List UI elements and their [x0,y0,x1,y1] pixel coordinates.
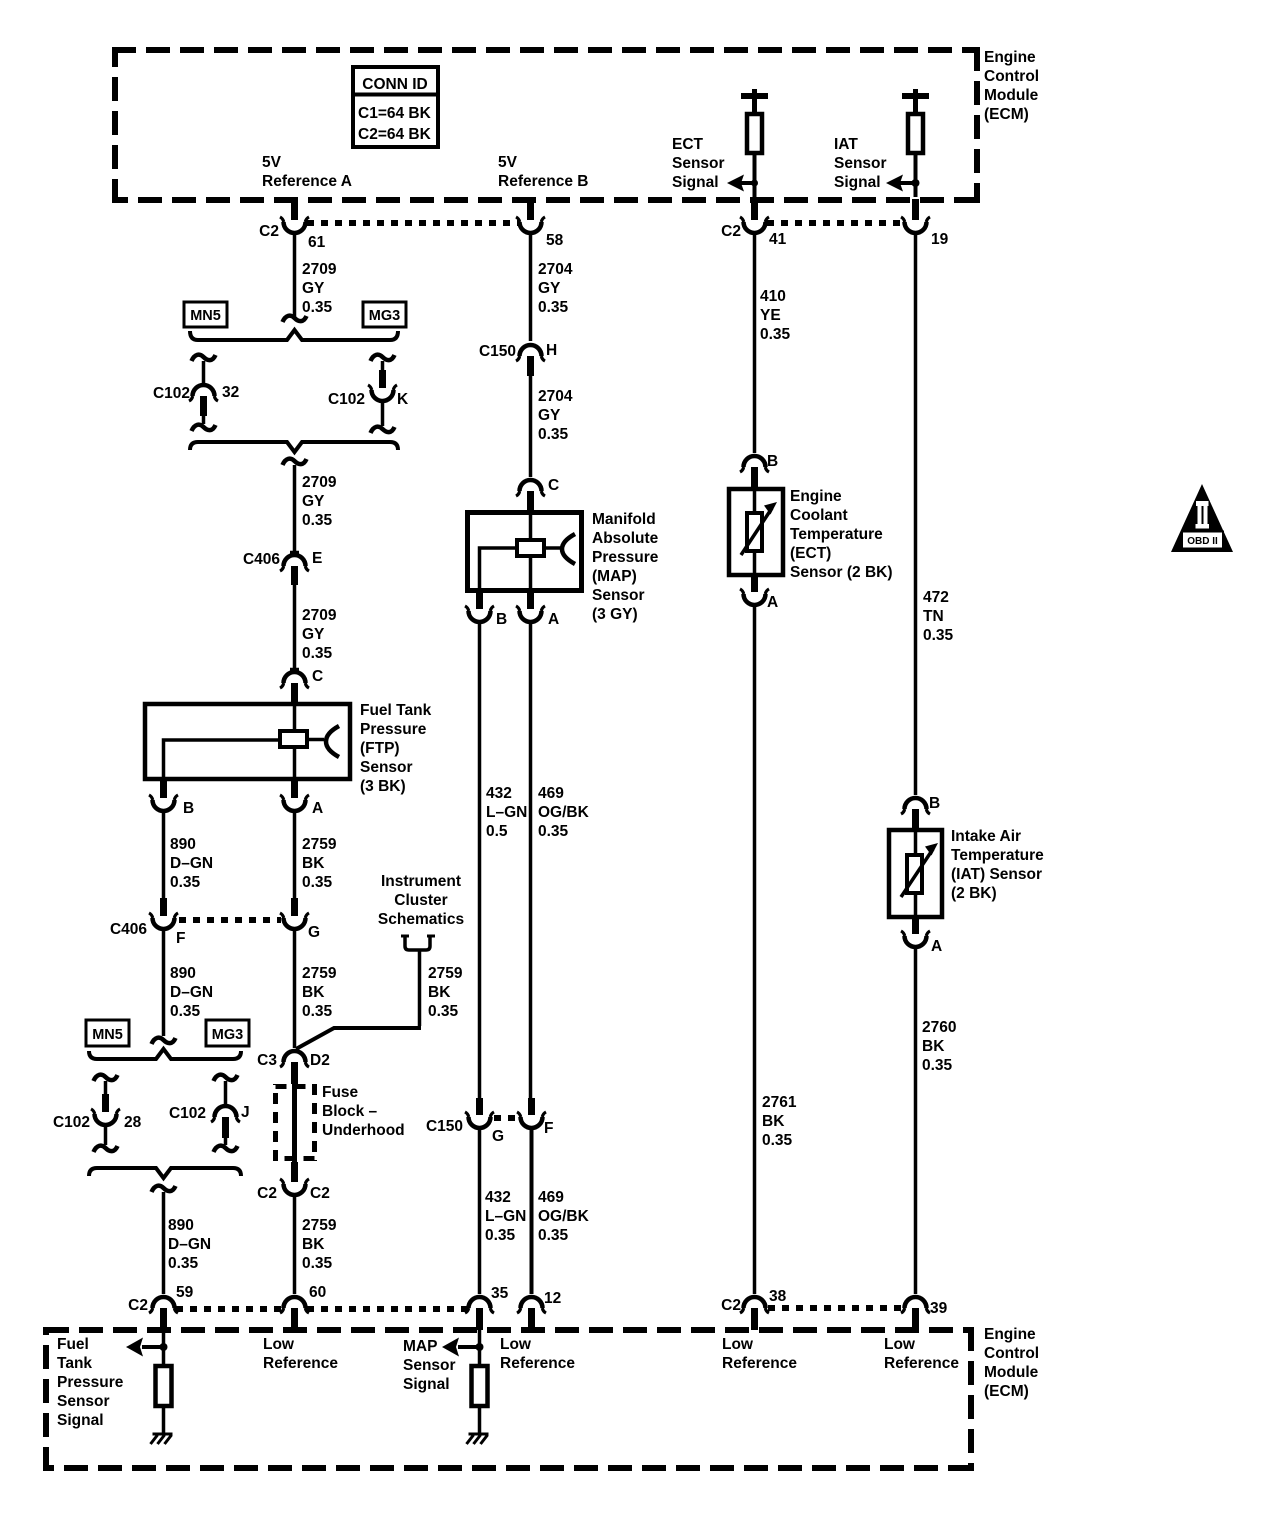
svg-text:MAP: MAP [403,1338,437,1355]
svg-text:D–GN: D–GN [170,984,213,1001]
svg-text:0.35: 0.35 [923,627,954,644]
connector FTP pin C [280,668,323,703]
svg-text:2709: 2709 [302,607,337,624]
wire dotted link 38-39 [768,1305,903,1311]
branch MN5 lower wire [94,1075,118,1094]
svg-text:Engine: Engine [790,488,842,505]
svg-text:ECT: ECT [672,136,704,153]
svg-text:Sensor: Sensor [672,155,725,172]
connector MAP pin A [516,592,559,628]
svg-text:Fuel: Fuel [57,1336,89,1353]
svg-text:61: 61 [308,234,326,251]
node Fuel Tank Pressure Sensor Signal [57,1336,124,1429]
wire 2704 GY to MAP C [531,376,573,477]
Intake Air Temperature (IAT) Sensor box [889,829,942,919]
ECM bottom box [45,1327,972,1471]
svg-text:Fuel Tank: Fuel Tank [360,702,432,719]
svg-text:Signal: Signal [57,1412,104,1429]
svg-text:19: 19 [931,231,949,248]
connector C406 pin F [110,898,186,947]
connector pin 60 [280,1284,326,1332]
resistor ECT pull-up (inside ECM) [741,89,768,197]
connector ECT pin A [740,577,778,611]
svg-text:C2: C2 [259,223,279,240]
connector pin 39 [901,1297,948,1330]
svg-text:60: 60 [309,1284,326,1301]
svg-text:0.35: 0.35 [538,1227,569,1244]
wire 2759 BK from FTP A [295,811,337,898]
brace split top [190,330,398,340]
wire 2704 GY from pin 58 [531,233,573,341]
svg-text:432: 432 [485,1189,511,1206]
wire dashed link G-F [494,1115,518,1121]
svg-text:F: F [544,1120,553,1137]
svg-text:MN5: MN5 [92,1027,123,1043]
node 5V Reference B [498,154,588,190]
svg-text:890: 890 [168,1217,194,1234]
svg-text:BK: BK [762,1113,785,1130]
OBD II marker [1171,484,1233,552]
connector C2 pin 41 [721,199,786,248]
svg-text:Schematics: Schematics [378,911,464,928]
svg-text:Fuse: Fuse [322,1084,359,1101]
svg-text:5V: 5V [498,154,518,171]
brace split top lower [89,1049,241,1059]
connector C150 pin G [426,1098,504,1145]
svg-text:0.35: 0.35 [760,326,791,343]
svg-text:2759: 2759 [302,965,337,982]
svg-text:BK: BK [428,984,451,1001]
svg-text:Signal: Signal [403,1376,450,1393]
connector C102 pin J [169,1104,250,1152]
svg-text:C102: C102 [169,1105,206,1122]
svg-text:BK: BK [302,855,325,872]
svg-text:CONN ID: CONN ID [362,76,427,93]
svg-text:Tank: Tank [57,1355,92,1372]
svg-text:32: 32 [222,384,239,401]
svg-text:D2: D2 [310,1052,330,1069]
svg-text:Low: Low [500,1336,532,1353]
svg-text:Sensor (2 BK): Sensor (2 BK) [790,564,893,581]
connector pin 12 [517,1290,561,1332]
svg-text:GY: GY [538,280,561,297]
ECM top box (Engine Control Module) [112,47,978,203]
svg-text:Intake Air: Intake Air [951,828,1021,845]
ECT sensor label [790,488,893,581]
connector FTP pin A [280,781,323,817]
svg-text:(3 GY): (3 GY) [592,606,638,623]
svg-text:Reference: Reference [263,1355,338,1372]
svg-text:MN5: MN5 [190,308,221,324]
resistor IAT pull-up (inside ECM) [902,89,929,197]
wire 2759 BK from instrument cluster [296,950,463,1049]
svg-text:0.35: 0.35 [302,874,333,891]
connector pin 35 [465,1285,509,1330]
svg-text:Manifold: Manifold [592,511,656,528]
svg-text:(FTP): (FTP) [360,740,400,757]
connector MAP pin C [516,477,559,511]
connector C2 C2 (fuse block) [257,1179,330,1202]
svg-text:OBD II: OBD II [1187,536,1218,547]
svg-text:0.35: 0.35 [762,1132,793,1149]
IAT sensor label [951,828,1044,902]
wire 472 TN from pin 19 [916,233,954,795]
svg-text:35: 35 [491,1285,509,1302]
wire 432 L-GN 0.35 [480,1128,527,1294]
svg-text:0.35: 0.35 [922,1057,953,1074]
svg-text:0.35: 0.35 [538,426,569,443]
svg-text:(2 BK): (2 BK) [951,885,997,902]
svg-text:Engine: Engine [984,49,1036,66]
svg-text:Reference: Reference [500,1355,575,1372]
svg-text:Reference: Reference [722,1355,797,1372]
wire 890 D-GN to pin 59 [164,1192,212,1294]
svg-text:C102: C102 [53,1114,90,1131]
svg-text:B: B [929,795,940,812]
wire 469 OG/BK 0.35 [531,622,590,1098]
connector C150 pin H [479,342,557,376]
svg-text:K: K [397,391,409,408]
svg-text:0.35: 0.35 [302,1003,333,1020]
svg-text:2759: 2759 [302,1217,337,1234]
svg-text:BK: BK [922,1038,945,1055]
svg-text:432: 432 [486,785,512,802]
node Low Reference (pin 39) [884,1336,959,1372]
svg-text:D–GN: D–GN [168,1236,211,1253]
wire dotted link pin61-pin58 [307,220,518,226]
svg-text:C406: C406 [110,921,147,938]
svg-text:B: B [183,800,194,817]
Instrument Cluster Schematics note [378,873,464,950]
svg-text:F: F [176,930,185,947]
svg-text:C406: C406 [243,551,280,568]
node 5V Reference A [262,154,352,190]
svg-text:472: 472 [923,589,949,606]
connector C2 pin 59 [128,1284,193,1330]
svg-text:G: G [308,924,320,941]
svg-text:C3: C3 [257,1052,277,1069]
svg-text:38: 38 [769,1288,787,1305]
svg-text:H: H [546,342,557,359]
svg-text:0.35: 0.35 [168,1255,199,1272]
node MAP Sensor Signal [403,1338,456,1393]
svg-text:L–GN: L–GN [485,1208,526,1225]
svg-text:Signal: Signal [672,174,719,191]
svg-text:A: A [931,938,942,955]
svg-text:OG/BK: OG/BK [538,1208,590,1225]
Fuse Block - Underhood box [276,1084,315,1182]
wire 2761 BK to pin 38 [755,605,797,1294]
svg-text:C2: C2 [721,223,741,240]
wire dotted link 59-60-35 [176,1306,468,1312]
svg-text:Sensor: Sensor [360,759,413,776]
svg-text:Pressure: Pressure [57,1374,124,1391]
svg-text:Sensor: Sensor [403,1357,456,1374]
svg-text:0.35: 0.35 [485,1227,516,1244]
connector C102 pin 28 [53,1094,142,1152]
wire 890 D-GN from F [164,929,214,1036]
wire break tilde below brace [283,459,307,465]
svg-text:Low: Low [722,1336,754,1353]
svg-text:Sensor: Sensor [592,587,645,604]
ECM label (bottom right) [984,1326,1039,1400]
svg-text:YE: YE [760,307,781,324]
svg-text:E: E [312,550,322,567]
svg-text:Temperature: Temperature [951,847,1044,864]
svg-text:J: J [241,1104,250,1121]
svg-text:Signal: Signal [834,174,881,191]
connector C3 pin D2 [257,1051,330,1084]
svg-text:Low: Low [884,1336,916,1353]
svg-text:C2: C2 [310,1185,330,1202]
connector C2 pin 38 [721,1288,786,1330]
svg-text:GY: GY [302,626,325,643]
Fuel Tank Pressure (FTP) Sensor box [145,703,350,779]
wire 61 2709 GY from pin 61 [295,233,337,317]
svg-text:C1=64 BK: C1=64 BK [358,105,432,122]
node Low Reference (pin 12) [500,1336,575,1372]
wire break tilde above lower brace [152,1038,176,1044]
svg-text:A: A [548,611,559,628]
svg-text:469: 469 [538,785,564,802]
svg-text:Cluster: Cluster [394,892,447,909]
svg-text:Sensor: Sensor [834,155,887,172]
svg-text:B: B [496,611,507,628]
svg-text:C2: C2 [721,1297,741,1314]
connector ECT pin B [740,453,778,488]
wire 2760 BK to pin 39 [916,947,957,1294]
svg-text:0.35: 0.35 [302,299,333,316]
wire break tilde above brace [283,316,307,322]
svg-text:Reference: Reference [884,1355,959,1372]
svg-text:GY: GY [538,407,561,424]
svg-text:IAT: IAT [834,136,858,153]
svg-text:Sensor: Sensor [57,1393,110,1410]
wire break tilde below lower brace [152,1186,176,1192]
wire 2759 BK to pin 60 [295,1195,337,1294]
svg-text:OG/BK: OG/BK [538,804,590,821]
svg-text:MG3: MG3 [212,1027,243,1043]
svg-text:0.35: 0.35 [538,823,569,840]
svg-text:0.35: 0.35 [538,299,569,316]
svg-text:Block –: Block – [322,1103,378,1120]
svg-text:41: 41 [769,231,787,248]
svg-text:Reference B: Reference B [498,173,588,190]
Engine Coolant Temperature (ECT) Sensor box [729,488,783,577]
svg-text:2759: 2759 [302,836,337,853]
svg-text:0.35: 0.35 [170,1003,201,1020]
svg-text:Engine: Engine [984,1326,1036,1343]
svg-text:C: C [312,668,323,685]
wire 432 L-GN 0.5 [480,622,528,1098]
svg-text:Control: Control [984,68,1039,85]
MAP sensor label [592,511,659,623]
svg-text:2709: 2709 [302,261,337,278]
branch MG3 lower wire [214,1075,238,1104]
svg-text:2709: 2709 [302,474,337,491]
svg-text:(IAT) Sensor: (IAT) Sensor [951,866,1042,883]
svg-text:MG3: MG3 [369,308,400,324]
node Low Reference (pin 60) [263,1336,338,1372]
svg-text:Module: Module [984,87,1039,104]
svg-text:A: A [767,594,778,611]
branch MN5: wire to C102 [192,355,216,384]
svg-text:Low: Low [263,1336,295,1353]
svg-text:A: A [312,800,323,817]
svg-text:GY: GY [302,280,325,297]
svg-text:C: C [548,477,559,494]
wire FTP signal arrow and resistor [126,1330,172,1433]
wire 2709 GY to FTP [295,585,337,669]
svg-text:2759: 2759 [428,965,463,982]
node ECT Sensor Signal (arrow) [672,136,758,192]
svg-text:B: B [767,453,778,470]
option label MN5 [184,302,227,327]
svg-text:Pressure: Pressure [360,721,427,738]
connector FTP pin B [149,781,194,817]
svg-text:BK: BK [302,984,325,1001]
svg-text:0.35: 0.35 [302,1255,333,1272]
svg-text:890: 890 [170,836,196,853]
connector C2 pin 61 [259,199,325,251]
svg-text:L–GN: L–GN [486,804,527,821]
connector IAT pin B [901,795,940,829]
svg-text:Underhood: Underhood [322,1122,405,1139]
svg-text:C102: C102 [153,385,190,402]
option label MN5 lower [86,1020,129,1046]
wire 410 YE from pin 41 [755,233,791,453]
node Low Reference (pin 38) [722,1336,797,1372]
connector C406 pin E [243,550,322,585]
svg-text:Module: Module [984,1364,1039,1381]
svg-text:59: 59 [176,1284,194,1301]
connector C102 pin K [328,370,409,433]
connector pin 58 [516,199,564,249]
FTP sensor label [360,702,432,795]
svg-text:G: G [492,1128,504,1145]
wire 2759 BK from G [295,929,337,1048]
svg-text:Temperature: Temperature [790,526,883,543]
svg-text:0.5: 0.5 [486,823,508,840]
brace join bottom lower [89,1168,241,1178]
connector MAP pin B [465,592,507,628]
svg-text:58: 58 [546,232,564,249]
svg-text:D–GN: D–GN [170,855,213,872]
option label MG3 [363,302,406,327]
connector IAT pin A [901,919,942,955]
svg-text:(ECT): (ECT) [790,545,831,562]
svg-text:C150: C150 [479,343,516,360]
svg-text:890: 890 [170,965,196,982]
svg-text:2704: 2704 [538,388,573,405]
svg-text:Instrument: Instrument [381,873,461,890]
connector C406 pin G [280,898,320,941]
svg-text:12: 12 [544,1290,561,1307]
svg-text:C102: C102 [328,391,365,408]
ground FTP branch [151,1434,173,1444]
svg-text:C2: C2 [128,1297,148,1314]
svg-text:469: 469 [538,1189,564,1206]
svg-text:(MAP): (MAP) [592,568,637,585]
connector C150 pin F [517,1098,553,1137]
svg-text:Reference A: Reference A [262,173,352,190]
wire 890 D-GN from FTP B [164,811,214,898]
brace join bottom [190,442,398,452]
svg-text:2761: 2761 [762,1094,797,1111]
svg-text:2704: 2704 [538,261,573,278]
svg-text:0.35: 0.35 [302,512,333,529]
ground MAP branch [467,1434,489,1444]
svg-text:39: 39 [930,1300,948,1317]
Manifold Absolute Pressure (MAP) Sensor box [468,511,582,591]
svg-text:C2: C2 [257,1185,277,1202]
ECM label (top right) [984,49,1039,123]
svg-text:0.35: 0.35 [170,874,201,891]
branch MG3: wire to C102 [371,355,395,388]
svg-text:(ECM): (ECM) [984,1383,1029,1400]
svg-text:2760: 2760 [922,1019,956,1036]
svg-text:C150: C150 [426,1118,463,1135]
wire 469 OG/BK 0.35 lower [532,1128,590,1294]
svg-text:Control: Control [984,1345,1039,1362]
svg-text:Pressure: Pressure [592,549,659,566]
node IAT Sensor Signal (arrow) [834,136,920,192]
connector C102 pin 32 [153,384,239,431]
svg-text:0.35: 0.35 [302,645,333,662]
svg-text:Coolant: Coolant [790,507,848,524]
connector pin 19 [901,199,949,248]
wire 2709 GY to C406 E [295,465,337,551]
svg-text:(ECM): (ECM) [984,106,1029,123]
svg-text:BK: BK [302,1236,325,1253]
svg-text:C2=64 BK: C2=64 BK [358,126,432,143]
svg-text:TN: TN [923,608,944,625]
option label MG3 lower [206,1020,249,1046]
wire dotted link F-G [179,917,281,923]
svg-text:0.35: 0.35 [428,1003,459,1020]
wire MAP signal arrow and resistor [442,1330,488,1433]
svg-text:GY: GY [302,493,325,510]
svg-text:28: 28 [124,1114,142,1131]
svg-text:410: 410 [760,288,786,305]
svg-text:Absolute: Absolute [592,530,659,547]
CONN ID table [353,67,438,147]
Fuse Block label [322,1084,405,1139]
svg-text:(3 BK): (3 BK) [360,778,406,795]
wire dotted link pin41-pin19 [767,220,903,226]
svg-text:5V: 5V [262,154,282,171]
